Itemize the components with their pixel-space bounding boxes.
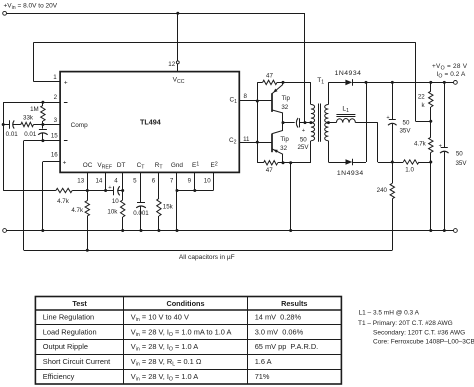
svg-text:50: 50	[456, 151, 463, 158]
svg-text:C1​: C1​	[229, 96, 237, 105]
svg-text:Vin​ = 28 V, IO​ = 1.0 A: Vin​ = 28 V, IO​ = 1.0 A	[131, 342, 198, 353]
svg-text:Tip: Tip	[280, 136, 289, 143]
svg-text:1N4934: 1N4934	[335, 70, 362, 77]
svg-text:Short Circuit Current: Short Circuit Current	[43, 357, 110, 366]
svg-text:+: +	[63, 159, 67, 166]
svg-text:Load Regulation: Load Regulation	[43, 327, 97, 336]
svg-text:13: 13	[77, 178, 84, 185]
svg-text:+: +	[64, 80, 68, 87]
svg-text:Vin​ = 10 V to 40 V: Vin​ = 10 V to 40 V	[131, 313, 189, 324]
svg-text:Vin​ = 28 V, IO​ = 1.0 A: Vin​ = 28 V, IO​ = 1.0 A	[131, 372, 198, 383]
svg-text:VREF​: VREF​	[97, 162, 112, 171]
svg-text:Core: Ferroxcube 1408P–L00–3CB: Core: Ferroxcube 1408P–L00–3CB8	[373, 339, 474, 346]
svg-text:1M: 1M	[30, 106, 39, 113]
svg-text:Results: Results	[281, 299, 307, 308]
svg-text:CT​: CT​	[137, 162, 146, 171]
svg-text:3: 3	[54, 117, 58, 124]
svg-text:E1: E1	[192, 161, 199, 169]
svg-text:TL494: TL494	[140, 117, 161, 126]
svg-text:11: 11	[243, 136, 250, 143]
svg-text:Gnd: Gnd	[171, 162, 184, 169]
svg-text:50: 50	[300, 137, 307, 144]
svg-text:1: 1	[53, 74, 57, 81]
svg-text:+: +	[386, 115, 389, 121]
svg-text:T1​: T1​	[317, 77, 324, 86]
svg-text:32: 32	[280, 145, 287, 152]
svg-text:RT​: RT​	[155, 162, 164, 171]
svg-text:10k: 10k	[107, 209, 118, 216]
svg-text:E2: E2	[211, 161, 218, 169]
svg-text:DT: DT	[117, 162, 126, 169]
svg-text:+: +	[439, 143, 442, 149]
svg-text:14: 14	[95, 178, 102, 185]
svg-text:C2​: C2​	[229, 137, 237, 146]
svg-text:4.7k: 4.7k	[414, 141, 427, 148]
svg-text:35V: 35V	[455, 160, 467, 167]
svg-text:Output Ripple: Output Ripple	[43, 342, 88, 351]
svg-text:VCC​: VCC​	[173, 77, 185, 86]
svg-text:25V: 25V	[297, 144, 309, 151]
svg-text:6: 6	[152, 178, 156, 185]
svg-text:4.7k: 4.7k	[57, 198, 70, 205]
svg-text:4: 4	[114, 178, 118, 185]
svg-text:Test: Test	[72, 299, 87, 308]
svg-text:15k: 15k	[163, 204, 174, 211]
svg-text:Efficiency: Efficiency	[43, 372, 75, 381]
svg-text:1.6 A: 1.6 A	[255, 357, 272, 366]
svg-text:IO​ = 0.2 A: IO​ = 0.2 A	[437, 71, 466, 80]
svg-text:9: 9	[188, 178, 192, 185]
svg-text:Line Regulation: Line Regulation	[43, 313, 94, 322]
svg-text:2: 2	[54, 94, 58, 101]
svg-text:10: 10	[204, 178, 211, 185]
svg-text:14 mV 0.28%: 14 mV 0.28%	[255, 313, 302, 322]
svg-text:All capacitors in µF: All capacitors in µF	[179, 254, 235, 261]
svg-text:T1 – Primary: 20T C.T. #28 AWG: T1 – Primary: 20T C.T. #28 AWG	[358, 320, 453, 327]
svg-text:16: 16	[51, 152, 58, 159]
svg-text:47: 47	[266, 73, 273, 80]
svg-text:Comp: Comp	[71, 122, 88, 129]
svg-text:15: 15	[51, 133, 58, 140]
svg-text:+Vin​ = 8.0V to 20V: +Vin​ = 8.0V to 20V	[4, 2, 58, 11]
svg-text:7: 7	[170, 178, 174, 185]
svg-text:50: 50	[403, 120, 410, 127]
svg-text:3.0 mV 0.06%: 3.0 mV 0.06%	[255, 327, 304, 336]
svg-text:12: 12	[168, 61, 175, 68]
svg-text:1.0: 1.0	[405, 167, 414, 174]
svg-text:Conditions: Conditions	[166, 299, 204, 308]
svg-text:0.001: 0.001	[133, 210, 149, 217]
svg-text:1N4934: 1N4934	[337, 170, 364, 177]
svg-text:L1​: L1​	[342, 106, 349, 115]
svg-text:0.01: 0.01	[24, 131, 37, 138]
svg-text:Tip: Tip	[282, 95, 291, 102]
svg-text:71%: 71%	[255, 372, 270, 381]
svg-text:33k: 33k	[23, 115, 34, 122]
svg-text:8: 8	[243, 93, 247, 100]
svg-text:k: k	[421, 102, 425, 109]
svg-text:0.01: 0.01	[6, 131, 19, 138]
svg-text:L1 – 3.5 mH @ 0.3 A: L1 – 3.5 mH @ 0.3 A	[359, 309, 420, 316]
svg-text:OC: OC	[83, 162, 93, 169]
svg-text:+: +	[302, 128, 306, 134]
svg-text:22: 22	[418, 93, 425, 100]
svg-text:Vin​ = 28 V, RL​ = 0.1 Ω: Vin​ = 28 V, RL​ = 0.1 Ω	[131, 357, 202, 368]
svg-text:240: 240	[377, 187, 388, 194]
svg-text:4.7k: 4.7k	[71, 207, 84, 214]
svg-text:32: 32	[281, 104, 288, 111]
svg-text:35V: 35V	[399, 127, 411, 134]
svg-text:Secondary: 120T C.T. #36 AWG: Secondary: 120T C.T. #36 AWG	[373, 329, 465, 336]
svg-text:47: 47	[266, 167, 273, 174]
svg-text:Vin​ = 28 V, IO​ = 1.0 mA to 1: Vin​ = 28 V, IO​ = 1.0 mA to 1.0 A	[131, 327, 232, 338]
svg-text:10: 10	[112, 198, 119, 205]
svg-text:5: 5	[133, 178, 137, 185]
svg-text:65 mV pp P.A.R.D.: 65 mV pp P.A.R.D.	[255, 342, 319, 351]
svg-text:+: +	[108, 185, 112, 191]
